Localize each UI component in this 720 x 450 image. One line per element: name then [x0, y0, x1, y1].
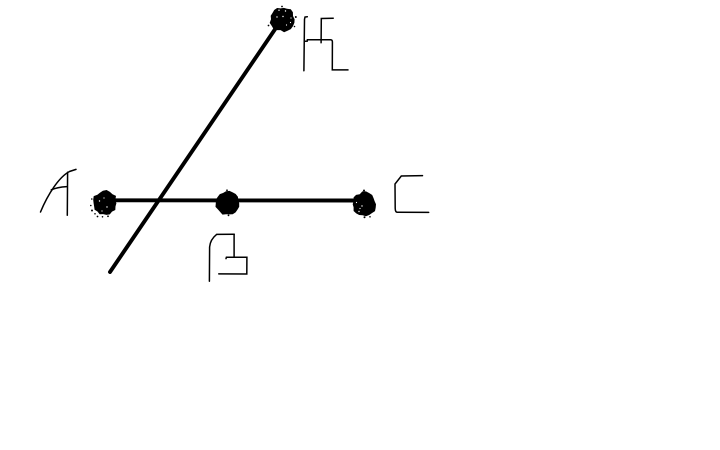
- label A (hand-drawn): [41, 169, 77, 215]
- wire: diagonal line through K: [110, 19, 282, 272]
- node B: dot: [216, 189, 240, 216]
- label B (hand-drawn): [209, 234, 247, 281]
- wire: horizontal line A-B-C: [103, 198, 364, 202]
- node C: dot: [353, 190, 376, 219]
- label C (hand-drawn): [395, 176, 429, 213]
- label K (hand-drawn): [304, 17, 348, 71]
- node A: scribbled dot: [90, 190, 116, 218]
- node K: scribbled dot: [268, 6, 297, 33]
